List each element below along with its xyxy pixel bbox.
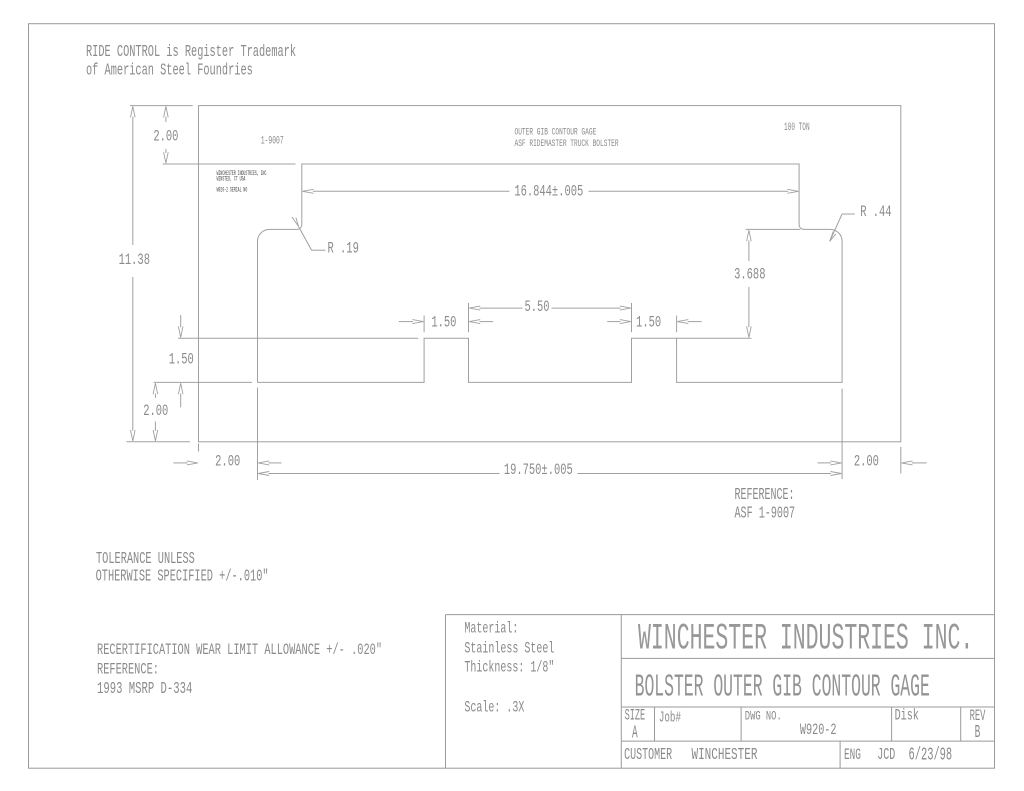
svg-text:REV: REV — [970, 706, 986, 725]
svg-text:REFERENCE:: REFERENCE: — [735, 485, 795, 504]
dim 2.00 lower-left — [143, 383, 168, 441]
svg-text:OTHERWISE SPECIFIED +/-.010": OTHERWISE SPECIFIED +/-.010" — [96, 568, 269, 586]
svg-text:2.00: 2.00 — [854, 452, 879, 470]
small mfg text block — [217, 170, 267, 194]
title block material cell text — [464, 619, 554, 716]
svg-text:SIZE: SIZE — [625, 707, 646, 724]
svg-text:1.50: 1.50 — [636, 313, 661, 331]
label 1-9007 — [261, 134, 284, 148]
cell DWG NO. — [745, 710, 782, 724]
dim 1.50 tab-left extension — [423, 316, 425, 333]
svg-text:6/23/98: 6/23/98 — [909, 746, 953, 766]
svg-text:19.750±.005: 19.750±.005 — [504, 461, 573, 479]
svg-text:Stainless Steel: Stainless Steel — [464, 639, 554, 657]
svg-text:W920-2 SERIAL NO: W920-2 SERIAL NO — [217, 186, 248, 194]
svg-text:WINSTED, CT USA: WINSTED, CT USA — [217, 176, 246, 184]
svg-text:REFERENCE:: REFERENCE: — [97, 662, 159, 680]
svg-text:5.50: 5.50 — [524, 298, 549, 316]
dim 3.688 — [734, 230, 765, 337]
title divider 2 — [621, 706, 994, 708]
dim 5.50 extensions — [469, 303, 632, 332]
svg-text:TOLERANCE UNLESS: TOLERANCE UNLESS — [96, 551, 195, 569]
svg-text:JCD: JCD — [877, 746, 895, 766]
dim 16.844 line — [303, 183, 799, 201]
title divider 1 — [621, 657, 994, 659]
svg-text:RECERTIFICATION WEAR LIMIT ALL: RECERTIFICATION WEAR LIMIT ALLOWANCE +/-… — [97, 642, 382, 660]
extension below outer vertical left — [257, 388, 259, 480]
title block outline — [446, 615, 995, 769]
extension below plate left edge — [198, 444, 200, 452]
dim 2.00 bottom-right — [818, 452, 927, 470]
svg-text:R .44: R .44 — [860, 203, 891, 221]
dim 19.750 — [258, 461, 841, 479]
svg-text:DWG NO.: DWG NO. — [745, 710, 782, 724]
cell CUSTOMER WINCHESTER — [624, 746, 757, 765]
svg-text:Job#: Job# — [659, 710, 681, 727]
svg-text:CUSTOMER: CUSTOMER — [624, 747, 672, 765]
svg-text:of American Steel Foundries: of American Steel Foundries — [86, 61, 253, 80]
cell ENG JCD 6/23/98 — [844, 746, 952, 766]
dim 2.00 lower-left extension — [154, 381, 253, 383]
svg-text:2.00: 2.00 — [215, 453, 240, 471]
svg-text:11.38: 11.38 — [119, 251, 150, 269]
svg-text:Thickness: 1/8": Thickness: 1/8" — [464, 658, 554, 676]
svg-text:Material:: Material: — [464, 619, 518, 637]
svg-text:1.50: 1.50 — [169, 350, 194, 368]
svg-text:1993 MSRP D-334: 1993 MSRP D-334 — [97, 680, 192, 699]
svg-text:ENG: ENG — [844, 746, 861, 764]
svg-text:2.00: 2.00 — [143, 402, 168, 420]
extension below plate right edge — [900, 447, 902, 474]
dim 11.38 bottom extension — [127, 441, 191, 443]
cell Job# — [659, 710, 681, 727]
dim 1.50 tab-right — [607, 313, 701, 331]
svg-text:R .19: R .19 — [328, 240, 359, 258]
cell SIZE A — [625, 707, 646, 744]
cell REV B — [970, 706, 986, 743]
svg-text:OUTER GIB CONTOUR GAGE: OUTER GIB CONTOUR GAGE — [515, 128, 597, 139]
leader R .19 — [292, 217, 359, 257]
svg-text:2.00: 2.00 — [153, 127, 178, 145]
svg-text:100 TON: 100 TON — [784, 121, 810, 133]
dim 1.50 tab-left — [399, 313, 493, 331]
dim 2.00 bottom-left-horizontal — [174, 453, 282, 471]
gage plate outline — [199, 106, 901, 442]
svg-text:1-9007: 1-9007 — [261, 134, 284, 148]
svg-text:1.50: 1.50 — [431, 313, 456, 331]
svg-text:B: B — [975, 723, 981, 743]
title WINCHESTER INDUSTRIES INC. — [638, 619, 973, 661]
label OUTER GIB CONTOUR GAGE — [515, 128, 619, 150]
dim 2.00 top-left extension lines — [130, 106, 296, 164]
customer row divider — [839, 741, 841, 768]
gib contour cutout — [258, 164, 843, 382]
title divider 3 — [621, 740, 994, 742]
dim 1.50 left — [169, 315, 194, 407]
svg-text:16.844±.005: 16.844±.005 — [514, 183, 583, 201]
svg-text:Scale: .3X: Scale: .3X — [464, 699, 524, 717]
cell W920-2 — [800, 722, 837, 740]
cell Disk — [895, 707, 919, 725]
dim 3.688 lower extension — [677, 337, 752, 339]
dim 2.00 top-left — [153, 106, 178, 163]
svg-text:ASF 1-9007: ASF 1-9007 — [735, 506, 796, 524]
svg-text:ASF RIDEMASTER TRUCK BOLSTER: ASF RIDEMASTER TRUCK BOLSTER — [515, 139, 619, 150]
svg-text:RIDE CONTROL is Register Trade: RIDE CONTROL is Register Trademark — [86, 43, 296, 62]
svg-text:WINCHESTER: WINCHESTER — [692, 746, 758, 765]
extension below outer vertical right — [841, 389, 843, 479]
dim 1.50 left extension — [178, 337, 418, 339]
dim 3.688 extension — [746, 228, 801, 230]
note RIDE CONTROL trademark — [86, 43, 296, 81]
note recertification — [97, 642, 382, 699]
dim 5.50 — [469, 298, 631, 316]
size row dividers — [655, 707, 961, 741]
leader R .44 — [830, 203, 892, 241]
svg-text:3.688: 3.688 — [734, 266, 765, 284]
svg-text:W920-2: W920-2 — [800, 722, 837, 740]
label 100 TON — [784, 121, 810, 133]
note tolerance — [96, 551, 269, 587]
dim 1.50 tab-right extension — [676, 316, 678, 333]
svg-text:Disk: Disk — [895, 707, 919, 725]
svg-text:WINCHESTER INDUSTRIES INC.: WINCHESTER INDUSTRIES INC. — [638, 619, 973, 661]
dim 11.38 — [119, 106, 150, 441]
note REFERENCE ASF 1-9007 — [735, 485, 796, 523]
svg-text:BOLSTER OUTER GIB CONTOUR GAGE: BOLSTER OUTER GIB CONTOUR GAGE — [635, 669, 930, 705]
title BOLSTER OUTER GIB CONTOUR GAGE — [635, 669, 930, 705]
